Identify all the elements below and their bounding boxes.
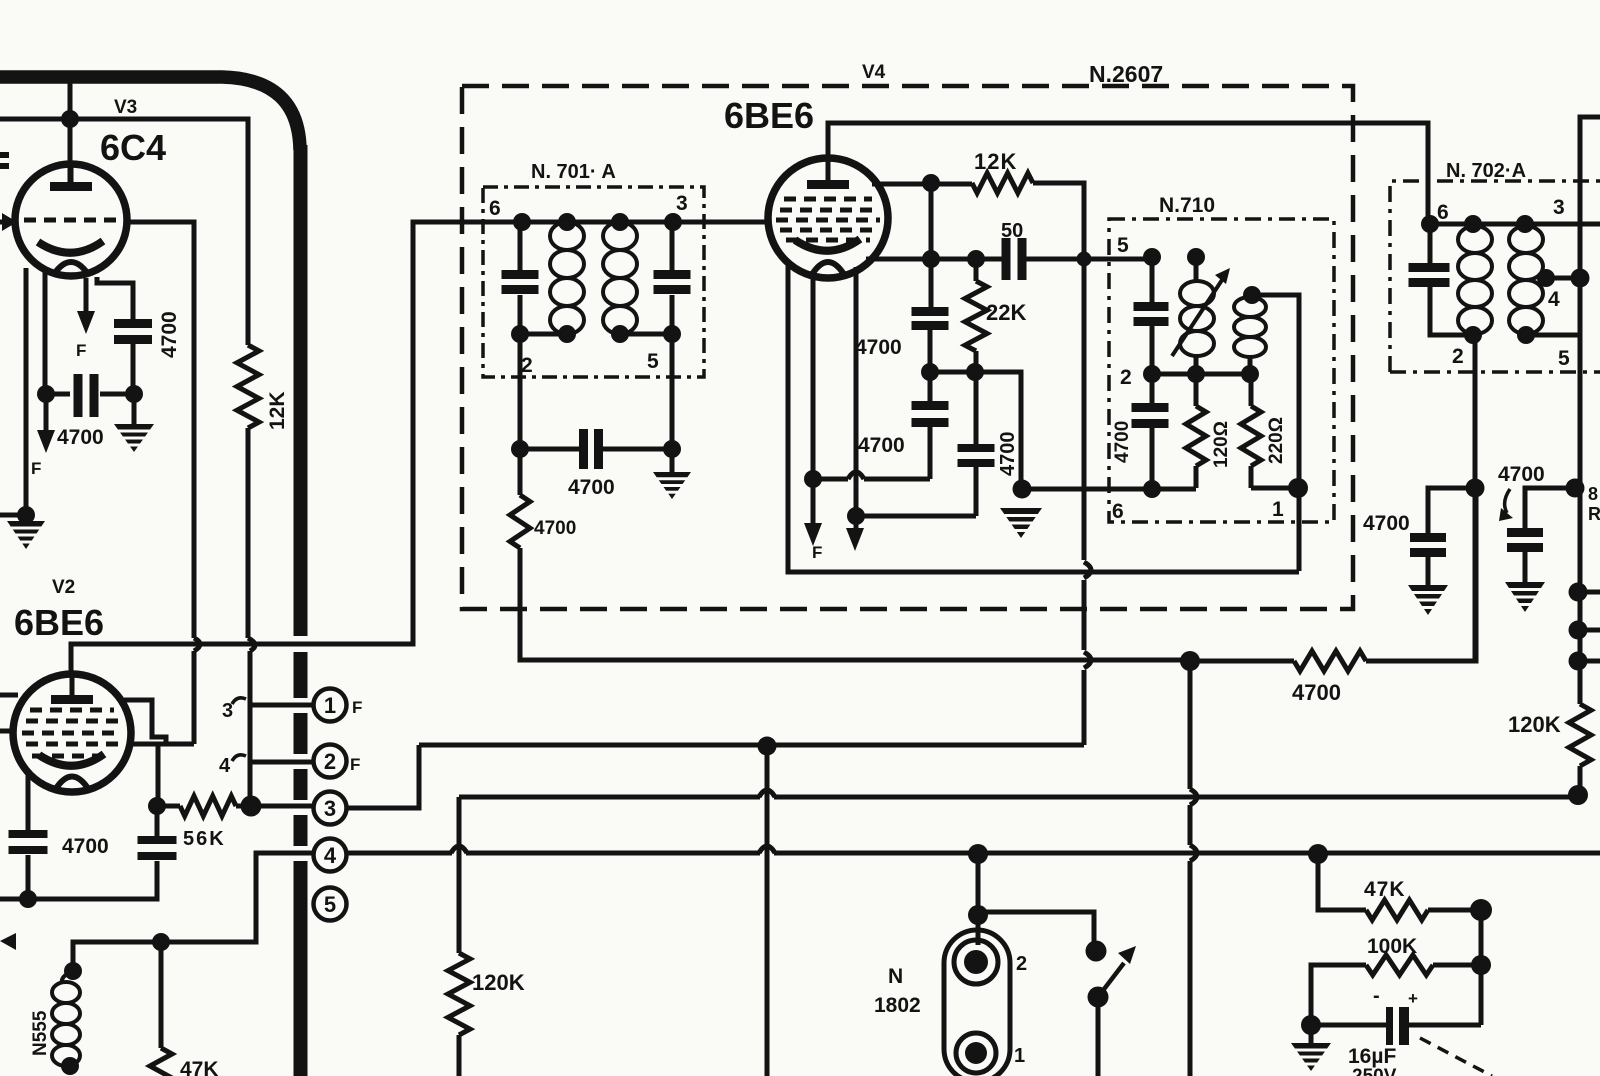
node pin6 top N.701A [513,213,531,231]
ground wire from left edge y=515 [0,513,26,518]
svg-text:1: 1 [1272,498,1284,521]
wire: V3 top pin from node (70,119) [68,119,73,184]
resistor 12K vertical [237,345,259,428]
bus wire y=797 [459,795,760,800]
svg-text:4700: 4700 [62,835,109,858]
wire: V3 plate to right, down the side [126,222,194,638]
svg-text:6BE6: 6BE6 [14,602,104,643]
svg-text:3: 3 [324,796,336,821]
node dot (767,746) [758,737,777,756]
svg-text:4: 4 [324,843,337,868]
coil N555 [62,971,73,984]
cut-off arrow at left edge [0,933,16,950]
capacitor 50 (series) [1002,238,1011,280]
nodes on pin5 line [1143,248,1161,266]
wire: V3 second leg to series-cap node [43,272,48,394]
vertical x=459 down through 120K [457,797,462,953]
wire stub from thick bus to node at (70,119) [68,83,73,119]
svg-text:4: 4 [1548,288,1560,311]
svg-text:N. 702·A: N. 702·A [1446,160,1526,182]
node coupling-coil bottom N.710 [1241,365,1259,383]
svg-text:120Ω: 120Ω [1211,421,1232,468]
capacitor 4700 (C) below 22K [974,372,979,445]
node pin2 N.701A [511,325,529,343]
capacitor N.702A left [1428,224,1433,264]
svg-text:12K: 12K [266,391,289,430]
wire: pin5 drop to ground node [670,334,675,449]
wire y=516 [856,514,976,519]
node pin5 N.701A [663,325,681,343]
top row wire [1428,222,1600,227]
terminal circle 4 [314,839,347,872]
svg-text:4700: 4700 [1292,680,1341,705]
svg-text:8: 8 [1588,484,1598,504]
node coil2 bottom N.701A [611,325,629,343]
svg-text:12K: 12K [974,149,1017,174]
jack N 1802 outline [944,930,1010,1076]
capacitor (N.710 upper) [1150,257,1155,303]
svg-text:56K: 56K [183,828,226,850]
ground below 100K left [1309,1025,1314,1043]
node row y=374 [1152,372,1250,377]
wire: V4 top cap to N.702A pin6 [828,123,1428,224]
coil secondary N.702A [1509,226,1543,253]
svg-text:50: 50 [1001,220,1023,242]
left-edge capacitor fragment marks [0,152,9,158]
terminal circle 1 [314,689,347,722]
wire: V2 right pin to vertical [130,742,194,747]
capacitor 4700 (B) [912,401,949,410]
16uF electrolytic [1301,1015,1321,1035]
node coil1 top N.701A [558,213,576,231]
svg-text:47K: 47K [180,1058,219,1076]
wire: 12K lead down with hop over y=644 wire [246,428,251,638]
svg-text:6BE6: 6BE6 [724,95,814,136]
arrow into V3 grid [2,213,17,231]
vertical x=931: caps chain [929,183,934,308]
wire: V2 upper right pin step [124,700,166,744]
svg-text:F: F [31,459,41,478]
V4 left leg to y=570 feeder [788,262,1077,572]
svg-text:F: F [76,341,86,360]
switch [1086,941,1107,962]
svg-text:2: 2 [1016,953,1027,975]
capacitor 4700 (left of pair) [1428,488,1475,534]
bottom connections N.701A [520,332,567,337]
resistor 120K right [1569,704,1591,766]
capacitor (N.701A right) [670,222,675,271]
hop of V3 vertical over long wire y=644 [194,638,200,651]
coupling coil N.710 [1243,286,1261,304]
tube V2 6BE6 [13,674,131,792]
coil primary N.701A [550,222,584,250]
svg-text:4700: 4700 [158,311,181,358]
svg-text:4700: 4700 [57,426,104,449]
svg-text:N.2607: N.2607 [1089,61,1163,87]
svg-text:V3: V3 [114,97,137,118]
node coil1 bottom N.701A [558,325,576,343]
tube V4 6BE6 [768,158,888,278]
resistor 220 ohm [1249,374,1254,406]
wire: V4 plate to 12K [872,182,972,187]
wire y=488 into N.710 [1022,487,1196,492]
terminal circle 5 [314,888,347,921]
wire: V3 cathode leg down-left to ground node [24,268,29,515]
svg-text:N. 701· A: N. 701· A [531,161,616,183]
pin2 drop [1473,335,1478,661]
wire y=372 to corner down [930,372,1021,488]
filament arrows below V4 [811,479,816,528]
small curved pointer arrow [1505,489,1510,513]
svg-text:4700: 4700 [1112,421,1133,463]
svg-text:6: 6 [489,197,501,220]
terminal circle 3 [314,792,347,825]
wire: terminal 3 right, up to y=745 feeder [347,745,419,808]
svg-text:4700: 4700 [1498,463,1545,486]
node dot (46,394) [37,385,55,403]
svg-text:4700: 4700 [1363,512,1410,535]
svg-text:3: 3 [222,700,233,722]
svg-text:3: 3 [676,192,688,215]
svg-text:2: 2 [324,749,336,774]
svg-text:120K: 120K [472,970,525,995]
svg-text:4700: 4700 [855,336,902,359]
svg-text:F: F [812,543,822,562]
node cap junction N.710 [1143,365,1161,383]
svg-text:5: 5 [647,350,659,373]
svg-text:N.710: N.710 [1159,194,1215,217]
node dot (161,942) [152,933,170,951]
svg-text:V2: V2 [52,577,75,598]
wire: pin2 drop to AVC node [518,334,523,449]
bus wire y=853 from terminal 4 to right edge [346,851,452,856]
capacitor 4700 (N.710 lower) [1150,374,1155,404]
ground symbol below node (134,394) [132,394,137,424]
variable coil N.710 [1194,257,1199,281]
svg-text:V4: V4 [862,62,886,83]
svg-text:3: 3 [1553,196,1565,219]
svg-text:16µF: 16µF [1348,1045,1396,1068]
adjust arrow through coil [1172,280,1222,356]
svg-text:4700: 4700 [997,432,1019,477]
node dot (73,971) [64,962,82,980]
transformer box N.701-A [483,187,704,377]
coil primary N.702A [1458,226,1492,253]
svg-text:250V: 250V [1352,1066,1397,1076]
node pin3 top N.701A [664,213,682,231]
wire to left edge y=899 [0,897,28,902]
pin5 to right vertical [1526,333,1580,338]
node dot (931,183) [922,174,940,192]
capacitor 4700 on V2 cathode leg [26,772,31,834]
svg-text:6: 6 [1437,201,1449,224]
ground symbol below V3 left leg [7,521,45,549]
svg-text:4: 4 [219,755,231,777]
svg-text:120K: 120K [1508,712,1561,737]
junction dot A [804,470,822,488]
resistor 56K [157,804,180,809]
wire 220 bottom to pin1 [1251,486,1299,491]
47K branch [1308,844,1328,864]
node junction dot (70,119) [61,110,79,128]
node dot (978,856) [968,844,988,864]
node dot (252,806) [241,796,262,817]
resistor 4700 horizontal [1190,659,1294,664]
jack contact 1 [956,1033,996,1073]
svg-text:22K: 22K [986,300,1026,325]
node dot (157,806) [148,797,166,815]
vertical x=767 to bottom [765,746,770,1076]
svg-text:N555: N555 [30,1010,51,1056]
junction dot B [847,507,865,525]
node dot (134,394) [125,385,143,403]
svg-text:-: - [1373,985,1380,1007]
coil secondary N.701A [603,222,637,250]
thick bus wire with rounded corner, top-left [0,77,300,150]
tube V3 6C4 [15,164,127,276]
svg-text:1802: 1802 [874,994,921,1017]
resistor 120 ohm [1194,374,1199,406]
node dot (978,915) [968,905,988,925]
resistor 120K (lower left-center) [448,953,470,1035]
wire: down and right along y=660 [520,548,1190,660]
wire pin1/coupling coil right side [1252,295,1299,571]
svg-text:47K: 47K [1364,878,1406,901]
pin4 tap [1537,269,1555,287]
node dot (28,899) [19,890,37,908]
svg-text:N: N [888,965,903,988]
terminal stubs with hooks [250,703,313,708]
filament arrow below node (46,394) [44,394,49,436]
wire: V2 grid inputs from left edge [0,693,18,698]
node dot (70,1066) [61,1057,79,1075]
right-side node dots [1566,479,1585,498]
svg-text:F: F [350,755,360,774]
svg-text:5: 5 [324,892,336,917]
capacitor 4700 below 56K left node [155,806,160,836]
svg-text:220Ω: 220Ω [1266,417,1287,464]
capacitor 4700 (right of pair) [1525,488,1575,529]
wire: V3 plate decoupling leg [97,277,133,320]
wire: V2 plate long run to IF transformer N.701A [71,222,766,672]
right vertical x=1580 from top wire [1580,117,1600,704]
capacitor 4700 (V3 plate bypass) [114,319,152,328]
wire: V4 grid3 to 50pF line [866,257,1005,262]
ground node (1022,488) [1013,480,1032,499]
wire: terminal 4 run to lower-left network [73,853,314,971]
series capacitor 4700 [520,447,579,452]
transformer box N.702-A [1390,181,1600,372]
nodes on grid line [922,250,940,268]
resistor 4700 below pin2 node [518,449,523,495]
capacitor 4700 (A) [912,307,949,316]
resistor 47K lower-left (cut at bottom) [159,942,164,1048]
stubs to right edge [1578,590,1600,595]
svg-text:2: 2 [1452,345,1464,368]
wire: y=745 feeder to the right, corner up at x=1084 [419,743,1084,748]
svg-text:1: 1 [324,693,336,718]
wire: V3 grid input from left edge [0,220,16,225]
svg-text:+: + [1408,989,1418,1008]
svg-text:100K: 100K [1367,935,1417,958]
svg-text:4700: 4700 [858,434,905,457]
wire to switch [978,912,1094,943]
ground symbol under pin5 [670,449,675,472]
svg-text:4700: 4700 [568,476,615,499]
dashed pointer line [1420,1038,1492,1076]
svg-text:5: 5 [1558,347,1570,370]
wire y=479 with hop over x=856 [813,477,848,482]
capacitor (N.701A left) [518,222,523,271]
svg-text:5: 5 [1117,234,1129,257]
node dot (26,515) [17,506,35,524]
wire: 12K right end down (x=1084 vertical) [1033,183,1084,560]
svg-text:4700: 4700 [534,518,576,539]
dashed module box N.2607 [462,86,1353,609]
resistor 12K horizontal [972,173,1033,193]
node coil2 top N.701A [611,213,629,231]
svg-text:6: 6 [1112,500,1124,523]
100K branch [1479,910,1484,1025]
jack contact 2 [954,940,998,984]
series capacitor 4700 between nodes [46,392,70,397]
node var-coil bottom N.710 [1187,365,1205,383]
wire: B+ line y=119 with corner down to 12K [0,119,248,345]
resistor 22K [974,259,979,281]
svg-text:R: R [1588,504,1600,524]
wire: node (252,806) to terminal 3 [251,804,314,809]
transformer box N.710 [1109,219,1334,522]
svg-text:F: F [352,698,362,717]
V4 cathode/grid legs [811,273,816,479]
V3 cathode arrow (F) [84,278,89,316]
vertical x=1190 to bottom with hops [1188,661,1193,789]
svg-text:1: 1 [1014,1045,1025,1067]
wire: drop to 56K left node [156,744,161,806]
svg-text:2: 2 [521,354,533,377]
svg-text:2: 2 [1120,366,1132,389]
terminal circle 2 [314,745,347,778]
node dot (1190,661) [1180,651,1200,671]
svg-text:6C4: 6C4 [100,127,166,168]
